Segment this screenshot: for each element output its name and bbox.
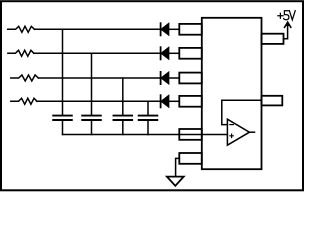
capacitor C2 bottom lead: [91, 120, 93, 135]
op-amp plus label: [230, 134, 233, 137]
wire bus drop row3: [122, 78, 124, 116]
wire ground pin to ground symbol: [176, 158, 180, 176]
capacitor C2: [82, 116, 101, 120]
pin 1 box: [179, 24, 202, 35]
diode D4: [161, 95, 180, 107]
pin 6 box (ground): [179, 153, 202, 164]
diode D1: [161, 23, 180, 35]
IC U1 body: [202, 18, 262, 169]
wire op-amp output stub: [249, 131, 254, 133]
diode D2: [161, 47, 180, 59]
resistor R2: [8, 50, 34, 56]
resistor R3: [11, 75, 39, 81]
wire bus drop row2: [91, 53, 93, 115]
pin 7 box (V+ supply): [262, 34, 284, 44]
wire supply pin to +5V arrow: [284, 22, 288, 38]
pin 4 box: [179, 96, 202, 107]
capacitor C3 bottom lead: [122, 120, 124, 135]
label +5V: [278, 11, 295, 20]
wire row3 to diode: [38, 77, 160, 79]
wire bus drop row1: [62, 29, 64, 115]
+5V arrowhead: [285, 22, 291, 27]
op-amp minus label: [230, 124, 233, 126]
wire ground rail to op-amp plus input: [63, 134, 228, 136]
capacitor C3: [114, 116, 133, 120]
pin 3 box: [179, 73, 202, 84]
pin 2 box: [179, 48, 202, 59]
wire bus drop row4: [147, 101, 149, 115]
wire row2 to diode: [34, 52, 161, 54]
border frame: [1, 1, 303, 190]
capacitor C1 bottom lead: [62, 120, 64, 135]
resistor R1: [8, 26, 35, 32]
ground symbol: [167, 177, 184, 186]
capacitor C4 bottom lead: [147, 120, 149, 135]
wire row1 to diode: [35, 28, 161, 30]
pin 8 box (output): [262, 96, 283, 106]
pin 5 box (non-inverting input): [179, 129, 202, 140]
op-amp U1A: [227, 119, 249, 145]
capacitor C1: [53, 116, 72, 120]
wire feedback (inverting input to output pin): [222, 100, 262, 124]
resistor R4: [11, 98, 37, 104]
diode D3: [161, 72, 180, 84]
wire row4 to diode: [37, 100, 161, 102]
capacitor C4: [139, 116, 158, 120]
